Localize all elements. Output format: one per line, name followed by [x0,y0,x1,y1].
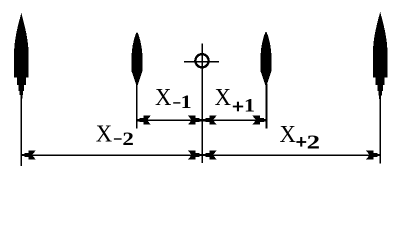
extension line inner right [266,84,268,128]
label X+1 : subscript plus vertical [237,102,239,112]
extension line left outer [20,95,22,166]
label X-1 : subscript minus [173,102,180,103]
label X+2 : subscript plus vertical [300,137,302,147]
maximum m=-2 (left outer spindle) [14,13,29,99]
svg-text:X: X [155,84,172,111]
svg-text:X: X [280,121,297,148]
maximum m=-1 (inner left spindle) [132,32,143,87]
svg-text:2: 2 [307,131,320,153]
maximum m=+2 (right outer spindle) [373,12,388,99]
svg-text:2: 2 [122,129,133,150]
extension line inner left [136,84,138,128]
arrowhead X-2 left [22,151,35,159]
label X+1 : subscript plus horizontal [233,106,243,108]
arrowhead X-1 left [137,116,150,124]
label X-2 : subscript minus [114,138,122,139]
dimension line X-1 [137,119,202,121]
svg-text:X: X [96,120,113,147]
arrowhead X+2 left [203,151,216,159]
svg-text:1: 1 [181,92,192,113]
label X+2 : subscript plus horizontal [296,141,306,143]
svg-text:1: 1 [244,96,255,117]
dimension line X-2 [22,154,202,156]
svg-text:X: X [215,84,232,111]
central maximum crosshair circle [195,54,208,67]
extension line right outer [379,95,381,164]
arrowhead X+1 right [253,116,266,124]
dimension line X+1 [202,119,266,121]
arrowhead X-1 right [189,116,202,124]
center extension line [201,43,203,163]
crosshair horizontal line [184,61,219,63]
maximum m=+1 (inner right spindle) [261,32,272,88]
arrowhead X+1 left [203,116,216,124]
dimension line X+2 [202,154,379,156]
arrowhead X-2 right [189,151,202,159]
arrowhead X+2 right [367,151,380,159]
